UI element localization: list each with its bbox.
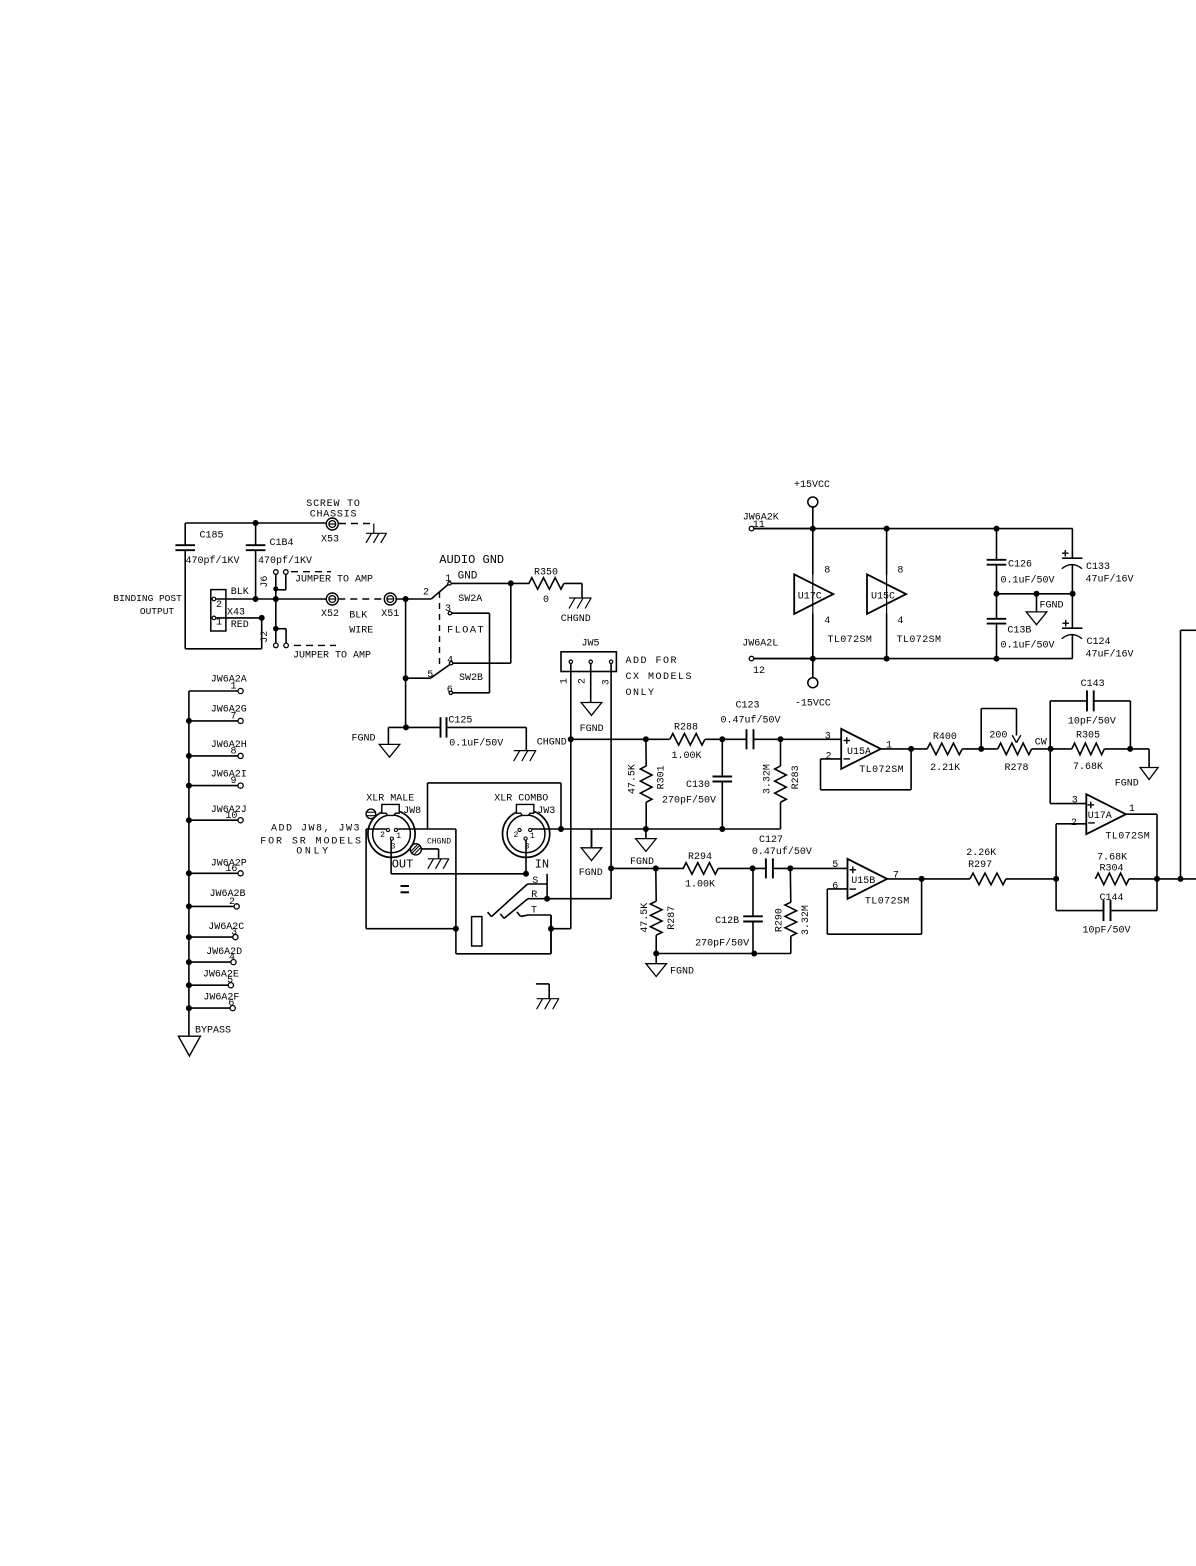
- svg-text:2: 2: [1071, 818, 1077, 829]
- svg-text:JW6A2G: JW6A2G: [211, 705, 247, 716]
- svg-text:C127: C127: [759, 835, 783, 846]
- svg-text:U17A: U17A: [1088, 811, 1112, 822]
- svg-text:OUTPUT: OUTPUT: [140, 606, 175, 617]
- svg-text:ADD JW8, JW3: ADD JW8, JW3: [271, 824, 361, 835]
- svg-text:470pf/1KV: 470pf/1KV: [185, 555, 239, 567]
- svg-text:FGND: FGND: [1115, 779, 1139, 790]
- svg-text:JW6A2H: JW6A2H: [211, 740, 247, 751]
- svg-text:2: 2: [380, 831, 385, 840]
- svg-text:2: 2: [216, 600, 222, 611]
- svg-text:JW5: JW5: [581, 639, 599, 650]
- svg-text:WIRE: WIRE: [349, 625, 373, 636]
- svg-text:6: 6: [228, 999, 234, 1010]
- svg-text:C126: C126: [1008, 560, 1032, 571]
- svg-text:0.1uF/50V: 0.1uF/50V: [449, 737, 503, 749]
- svg-text:U17C: U17C: [798, 591, 822, 602]
- svg-text:TL072SM: TL072SM: [859, 765, 904, 776]
- svg-text:-15VCC: -15VCC: [795, 698, 831, 709]
- svg-text:X52: X52: [321, 609, 339, 620]
- svg-text:FGND: FGND: [351, 733, 375, 744]
- svg-text:47.5K: 47.5K: [640, 903, 651, 933]
- svg-text:J6: J6: [260, 576, 271, 588]
- svg-text:FGND: FGND: [579, 868, 603, 879]
- svg-text:10pF/50V: 10pF/50V: [1082, 925, 1130, 937]
- svg-text:R304: R304: [1099, 864, 1123, 875]
- svg-text:R294: R294: [688, 852, 712, 863]
- svg-text:JW3: JW3: [537, 806, 555, 817]
- svg-text:1: 1: [216, 617, 222, 628]
- svg-text:200: 200: [989, 731, 1007, 742]
- svg-text:C13B: C13B: [1007, 626, 1031, 637]
- svg-text:JW6A2B: JW6A2B: [209, 889, 245, 900]
- svg-text:4: 4: [897, 616, 903, 627]
- svg-text:TL072SM: TL072SM: [865, 896, 910, 907]
- svg-text:2: 2: [229, 897, 235, 908]
- svg-text:0.1uF/50V: 0.1uF/50V: [1000, 574, 1054, 586]
- svg-text:TL072SM: TL072SM: [1105, 832, 1150, 843]
- svg-text:1: 1: [560, 678, 571, 684]
- svg-text:3.32M: 3.32M: [801, 905, 812, 935]
- svg-text:7.68K: 7.68K: [1097, 852, 1127, 863]
- svg-text:3.32M: 3.32M: [763, 764, 774, 794]
- svg-text:C185: C185: [199, 531, 223, 542]
- svg-text:1: 1: [445, 574, 451, 585]
- svg-text:12: 12: [753, 666, 765, 677]
- svg-text:1.00K: 1.00K: [671, 751, 701, 762]
- svg-text:47uF/16V: 47uF/16V: [1086, 574, 1134, 586]
- svg-text:47uF/16V: 47uF/16V: [1086, 649, 1134, 661]
- svg-text:XLR MALE: XLR MALE: [366, 794, 414, 805]
- svg-text:JW6A2A: JW6A2A: [211, 675, 247, 686]
- svg-text:C1B4: C1B4: [269, 538, 293, 549]
- svg-text:SW2A: SW2A: [458, 594, 482, 605]
- svg-text:CX MODELS: CX MODELS: [626, 672, 694, 683]
- svg-text:10: 10: [225, 811, 237, 822]
- svg-text:4: 4: [447, 655, 453, 666]
- svg-text:R305: R305: [1076, 731, 1100, 742]
- svg-text:GND: GND: [458, 570, 478, 582]
- svg-text:470pf/1KV: 470pf/1KV: [258, 555, 312, 567]
- svg-text:TL072SM: TL072SM: [897, 635, 942, 646]
- svg-text:R350: R350: [534, 568, 558, 579]
- svg-text:3: 3: [231, 928, 237, 939]
- svg-text:C123: C123: [735, 700, 759, 711]
- svg-text:C143: C143: [1081, 679, 1105, 690]
- svg-text:1: 1: [886, 740, 892, 751]
- svg-text:C124: C124: [1087, 637, 1111, 648]
- svg-text:0: 0: [543, 595, 549, 606]
- svg-text:U15C: U15C: [871, 591, 895, 602]
- svg-text:2.26K: 2.26K: [966, 848, 996, 859]
- svg-text:2: 2: [513, 831, 518, 840]
- svg-text:C144: C144: [1099, 893, 1123, 904]
- svg-text:ONLY: ONLY: [626, 688, 656, 699]
- svg-text:270pF/50V: 270pF/50V: [662, 794, 716, 806]
- svg-text:R: R: [531, 890, 537, 901]
- svg-text:3: 3: [445, 604, 451, 615]
- svg-text:BINDING POST: BINDING POST: [113, 593, 182, 604]
- svg-text:FGND: FGND: [580, 724, 604, 735]
- svg-text:6: 6: [447, 685, 453, 696]
- svg-text:16: 16: [225, 864, 237, 875]
- svg-text:1.00K: 1.00K: [685, 879, 715, 890]
- svg-text:2.21K: 2.21K: [930, 763, 960, 774]
- svg-text:SW2B: SW2B: [459, 673, 483, 684]
- svg-text:1: 1: [230, 682, 236, 693]
- svg-text:R297: R297: [968, 860, 992, 871]
- svg-text:2: 2: [578, 678, 589, 684]
- svg-text:9: 9: [230, 776, 236, 787]
- svg-text:ONLY: ONLY: [296, 846, 330, 857]
- svg-text:3: 3: [602, 679, 613, 685]
- svg-text:8: 8: [897, 566, 903, 577]
- svg-text:5: 5: [227, 976, 233, 987]
- svg-text:3: 3: [525, 843, 530, 852]
- svg-text:R278: R278: [1004, 763, 1028, 774]
- svg-text:BYPASS: BYPASS: [195, 1026, 231, 1037]
- svg-text:10pF/50V: 10pF/50V: [1068, 716, 1116, 728]
- svg-text:1: 1: [1129, 804, 1135, 815]
- svg-text:AUDIO GND: AUDIO GND: [439, 553, 504, 567]
- svg-text:OUT: OUT: [392, 857, 414, 871]
- svg-text:8: 8: [824, 566, 830, 577]
- svg-text:1: 1: [396, 832, 401, 841]
- svg-text:3: 3: [391, 843, 396, 852]
- svg-text:R290: R290: [774, 908, 785, 932]
- svg-text:CHASSIS: CHASSIS: [310, 510, 358, 521]
- svg-text:U15B: U15B: [851, 876, 875, 887]
- svg-text:CHGND: CHGND: [561, 614, 591, 625]
- svg-text:C12B: C12B: [715, 916, 739, 927]
- svg-text:X51: X51: [381, 609, 399, 620]
- svg-text:CW: CW: [1035, 738, 1047, 749]
- svg-text:X53: X53: [321, 534, 339, 545]
- svg-text:X43: X43: [227, 608, 245, 619]
- svg-text:R288: R288: [674, 723, 698, 734]
- svg-text:11: 11: [753, 520, 765, 531]
- svg-text:47.5K: 47.5K: [628, 764, 639, 794]
- svg-text:8: 8: [230, 747, 236, 758]
- svg-text:R400: R400: [933, 732, 957, 743]
- svg-text:4: 4: [229, 953, 235, 964]
- svg-text:FGND: FGND: [630, 857, 654, 868]
- svg-text:0.47uf/50V: 0.47uf/50V: [752, 846, 812, 858]
- svg-text:JW6A2I: JW6A2I: [211, 770, 247, 781]
- svg-text:FGND: FGND: [670, 967, 694, 978]
- svg-text:BLK: BLK: [349, 611, 367, 622]
- svg-text:JUMPER TO AMP: JUMPER TO AMP: [295, 574, 373, 585]
- svg-text:270pF/50V: 270pF/50V: [695, 937, 749, 949]
- svg-text:5: 5: [427, 670, 433, 681]
- svg-text:7: 7: [230, 712, 236, 723]
- svg-text:FLOAT: FLOAT: [447, 625, 485, 637]
- svg-text:TL072SM: TL072SM: [827, 635, 872, 646]
- svg-text:BLK: BLK: [231, 587, 249, 598]
- svg-text:JW6A2E: JW6A2E: [203, 970, 239, 981]
- svg-text:3: 3: [825, 731, 831, 742]
- svg-text:RED: RED: [231, 620, 249, 631]
- svg-text:2: 2: [423, 587, 429, 598]
- svg-text:7.68K: 7.68K: [1073, 762, 1103, 773]
- svg-text:JW6A2L: JW6A2L: [742, 639, 778, 650]
- svg-text:XLR COMBO: XLR COMBO: [494, 794, 548, 805]
- svg-text:JUMPER TO AMP: JUMPER TO AMP: [293, 651, 371, 662]
- svg-text:C133: C133: [1086, 562, 1110, 573]
- svg-text:R283: R283: [791, 765, 802, 789]
- svg-text:JW8: JW8: [403, 806, 421, 817]
- svg-text:C130: C130: [686, 780, 710, 791]
- svg-text:0.1uF/50V: 0.1uF/50V: [1000, 640, 1054, 652]
- svg-text:ADD FOR: ADD FOR: [626, 656, 679, 667]
- svg-text:SCREW TO: SCREW TO: [306, 499, 360, 510]
- svg-text:4: 4: [824, 616, 830, 627]
- svg-text:0.47uf/50V: 0.47uf/50V: [720, 714, 780, 726]
- svg-text:FGND: FGND: [1039, 600, 1063, 611]
- svg-text:7: 7: [893, 870, 899, 881]
- svg-text:CHGND: CHGND: [427, 837, 451, 846]
- svg-text:U15A: U15A: [847, 747, 871, 758]
- svg-text:6: 6: [832, 881, 838, 892]
- svg-text:JW6A2C: JW6A2C: [208, 922, 244, 933]
- svg-text:J2: J2: [260, 631, 271, 643]
- svg-text:CHGND: CHGND: [537, 738, 567, 749]
- svg-text:R301: R301: [656, 765, 667, 789]
- svg-text:S: S: [532, 876, 538, 887]
- svg-text:R287: R287: [667, 906, 678, 930]
- svg-text:3: 3: [1072, 796, 1078, 807]
- svg-text:T: T: [531, 906, 537, 917]
- svg-text:IN: IN: [535, 857, 549, 871]
- svg-text:JW6A2D: JW6A2D: [206, 947, 242, 958]
- svg-text:C125: C125: [448, 716, 472, 727]
- svg-text:2: 2: [825, 752, 831, 763]
- svg-text:5: 5: [832, 860, 838, 871]
- svg-text:+15VCC: +15VCC: [794, 480, 830, 491]
- svg-text:1: 1: [530, 832, 535, 841]
